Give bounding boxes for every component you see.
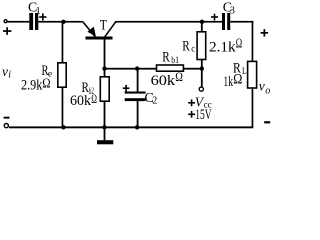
svg-text:1k: 1k xyxy=(223,74,233,90)
svg-text:b1: b1 xyxy=(171,56,179,66)
svg-text:2.1k: 2.1k xyxy=(209,40,236,56)
svg-text:Ω: Ω xyxy=(42,76,50,91)
svg-text:T: T xyxy=(100,16,107,33)
svg-text:2.9k: 2.9k xyxy=(21,78,43,94)
svg-text:c: c xyxy=(191,44,195,54)
svg-text:Ω: Ω xyxy=(233,71,242,87)
svg-text:2: 2 xyxy=(152,96,157,107)
svg-text:Ω: Ω xyxy=(236,37,242,52)
svg-text:Ω: Ω xyxy=(91,91,97,106)
svg-text:v: v xyxy=(2,64,8,79)
svg-text:Ω: Ω xyxy=(175,69,183,84)
svg-text:60k: 60k xyxy=(151,73,176,89)
svg-text:3: 3 xyxy=(230,5,235,16)
svg-text:60k: 60k xyxy=(70,93,92,109)
svg-text:v: v xyxy=(259,79,265,94)
svg-text:1: 1 xyxy=(36,6,41,17)
svg-text:i: i xyxy=(8,70,11,81)
svg-text:15V: 15V xyxy=(195,107,212,123)
svg-text:R: R xyxy=(162,50,170,66)
svg-text:L: L xyxy=(242,67,247,77)
svg-text:R: R xyxy=(182,39,190,55)
svg-text:o: o xyxy=(265,85,270,96)
